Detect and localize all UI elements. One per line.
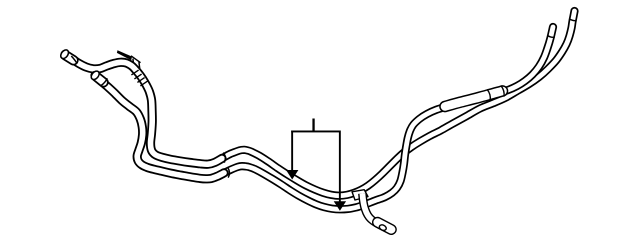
pipe A right tip joint arc [547,35,554,37]
rubber hose section of pipe A (fatter, left half) [95,76,224,179]
left leader line [291,131,293,171]
sleeve divider arc [487,89,490,100]
mounting tab on rear pipe (left) [117,50,140,69]
clamp bracket strap band (over pipes) [362,194,393,231]
right leader line [339,131,341,202]
pipe A: front cooler pipe (lower-left fitting to right-hand inner tip) [95,27,553,209]
left leader arrowhead [286,170,298,180]
pipe B left end fitting [59,48,73,60]
corrugated rib section on pipe B [131,70,147,86]
pipe B fitting joint arc [71,56,77,64]
right leader arrowhead [334,201,346,211]
callout bracket horizontal line [291,131,340,133]
rubber hose section of pipe B (fatter, left half) [65,55,222,165]
sleeve end arc [501,86,504,97]
hose joint arc on pipe B [223,153,225,163]
pipe A left end fitting [90,70,104,83]
hose joint arc on pipe A [228,167,230,177]
pipe A fitting joint arc [101,78,107,85]
pipe B: rear cooler pipe (upper-left fitting to right-hand outer tip) [65,11,575,196]
clamp bolt hole [378,224,387,232]
protective sleeve on pipe A [445,91,503,107]
pipe B right tip joint arc [569,19,576,21]
label "1" (callout digit) [312,119,314,132]
clamp bracket folded flap (over pipes) [352,190,368,200]
clamp bracket foot pad [378,222,392,229]
